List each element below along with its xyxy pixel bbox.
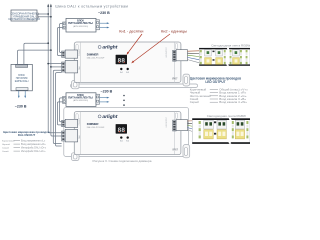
svg-text:arlight: arlight [102, 114, 117, 120]
wire busPSU mains N [24, 91, 26, 96]
terminal PSU1 right [96, 20, 100, 30]
arrow Кн1 to display [127, 34, 143, 55]
wire PSU1 N mains [100, 27, 108, 29]
node L2 dimmer1 [50, 66, 52, 68]
svg-text:IP67: IP67 [173, 147, 179, 151]
wire panel to L1 [37, 13, 48, 15]
svg-text:Светодиодная лента RGBW: Светодиодная лента RGBW [211, 43, 250, 47]
dimmer2 strip connector body [176, 120, 187, 131]
wire L1 tap to dimmer1 DALI [48, 63, 61, 65]
svg-text:DALI-104-PX1-SUF: DALI-104-PX1-SUF [87, 57, 105, 60]
strip1 pads mid-right [230, 50, 232, 64]
svg-text:Черный: Черный [2, 143, 11, 146]
dimmer2 right ear [183, 145, 190, 158]
dimmer2 case U2 [74, 112, 181, 155]
wire PSU2 L mains [100, 97, 108, 99]
wire busPSU mains L [18, 91, 20, 96]
svg-text:LED OUTPUT: LED OUTPUT [205, 80, 225, 84]
strip2 LED unit 3 [235, 120, 244, 139]
dimmer1 case U1 [74, 42, 181, 82]
dimmer1 right ear [183, 74, 190, 86]
LED strip 1 [199, 48, 250, 66]
dimmer2 right flange line [174, 112, 176, 155]
node panel-L2 [50, 16, 52, 18]
arrow bus L2 up [50, 4, 52, 7]
strip1 LED unit 3 [233, 50, 240, 65]
dimmer2 flange slot left [76, 114, 78, 120]
node busPSU-L2 [50, 49, 52, 51]
wire PSU2 N mains [100, 101, 108, 103]
strip2 pads left [199, 121, 201, 138]
wire L2 tap to dimmer1 DALI [51, 66, 62, 68]
terminal PSU2 right [96, 94, 100, 104]
wire daisy DALI out A (dimmer1 to dimmer2) [53, 70, 61, 143]
dimmer2 logo arlight [98, 114, 118, 120]
wire PSU1 V+ to dimmer1 power [60, 24, 63, 53]
svg-text:ПИТАНИЯ ЛЕНТЫ: ПИТАНИЯ ЛЕНТЫ [68, 21, 93, 25]
wire PSU2 V+ to dimmer2 power [60, 98, 63, 122]
wire busPSU to L2 [18, 50, 51, 64]
strip PSU 2 box: Блок питания ленты [66, 93, 96, 107]
ellipsis more devices [123, 95, 125, 106]
arrow bus L1 up [47, 4, 49, 7]
svg-text:LED OUTPUT: LED OUTPUT [166, 47, 168, 57]
strip1 pads mid-left [224, 50, 226, 64]
svg-text:Вход канала 4 «W»: Вход канала 4 «W» [219, 100, 247, 104]
svg-text:(ARV-SN24100): (ARV-SN24100) [73, 25, 88, 28]
arrow PSU2 L [107, 97, 110, 99]
strip2 pads mid-right [232, 121, 234, 138]
dimmer2 button Кн1 [120, 136, 122, 138]
dimmer1 display [116, 55, 127, 65]
svg-text:LED OUTPUT: LED OUTPUT [166, 117, 168, 127]
dimmer2 left ear [71, 153, 79, 161]
svg-text:DALI: DALI [78, 66, 81, 70]
svg-text:~230 В: ~230 В [98, 11, 110, 15]
wire PSU1 L mains [100, 22, 108, 24]
arrow PSU1 N [107, 27, 110, 29]
arrow busPSU mains L [18, 96, 20, 99]
wire DALI bus L2 [51, 6, 62, 136]
strip1 cut gap [226, 48, 230, 66]
wire PSU2 V- to dimmer2 power [57, 102, 62, 125]
legend LED OUTPUT (right) [190, 77, 248, 105]
arrow PSU2 N [107, 101, 110, 103]
strip1 LED unit 2 [216, 50, 223, 65]
terminal dimmer1 POWER [62, 50, 78, 58]
wires dimmer1 to strip1 (5 pcs) [188, 51, 200, 63]
strip2 LED unit 1 [204, 120, 213, 139]
svg-text:ПИТАНИЯ ЛЕНТЫ: ПИТАНИЯ ЛЕНТЫ [68, 96, 93, 100]
svg-text:POWER: POWER [79, 118, 81, 125]
dimmer2 left flange line [79, 112, 81, 155]
strip1 resistors 1 [213, 51, 215, 61]
svg-text:Серый: Серый [2, 147, 10, 150]
strip PSU 1 box: Блок питания ленты [66, 18, 96, 32]
terminal dimmer1 DALI [62, 60, 78, 73]
svg-text:Кн2: Кн2 [126, 72, 129, 74]
dimmer1 strip connector body [176, 50, 187, 61]
strip1 pads right end [240, 50, 248, 64]
dimmer1 cable pins [173, 50, 177, 61]
dimmer2 button Кн2 [127, 136, 129, 138]
terminal dimmer2 DALI [62, 129, 78, 142]
svg-text:СИСТЕМОЙ ОСВЕЩЕНИЯ: СИСТЕМОЙ ОСВЕЩЕНИЯ [8, 18, 40, 21]
terminal dimmer2 POWER [62, 119, 78, 127]
svg-text:Интерфейс DALI «D-»: Интерфейс DALI «D-» [21, 150, 46, 153]
svg-text:~230 В: ~230 В [101, 90, 113, 94]
svg-text:(ARV-SN24100): (ARV-SN24100) [73, 99, 88, 102]
svg-text:Коричневый: Коричневый [2, 140, 15, 143]
dimmer1 flange slot right [175, 44, 177, 49]
dimmer1 button Кн2 [127, 68, 129, 70]
strip2 LED unit 2 [217, 120, 226, 139]
arrow PSU1 L [107, 22, 110, 24]
terminal PSU1 left [63, 22, 66, 29]
svg-text:DALI IN/OUT: DALI IN/OUT [18, 133, 36, 137]
node L1 dimmer1 [47, 63, 49, 65]
wire busPSU to L1 [24, 43, 48, 64]
wires dimmer2 to strip2 (5 pcs) [188, 121, 199, 134]
arrow busPSU mains N [24, 96, 26, 99]
node panel-L1 [47, 13, 49, 15]
svg-text:ШИНЫ DALI: ШИНЫ DALI [15, 80, 29, 83]
wire DALI bus L1 [48, 6, 61, 133]
svg-text:DALI-104-PX1-SUF: DALI-104-PX1-SUF [87, 126, 105, 129]
dimmer1 mounting rail [71, 84, 198, 87]
terminal PSU2 left [63, 96, 66, 103]
arrow Кн2 to button [131, 34, 170, 63]
svg-text:~230 В: ~230 В [15, 104, 27, 108]
svg-text:Шина DALI к остальным устройст: Шина DALI к остальным устройствам [55, 4, 128, 8]
svg-text:Рисунок 3. Схема подключения д: Рисунок 3. Схема подключения диммера [93, 159, 152, 163]
strip1 LED unit 1 [205, 50, 212, 65]
dimmer1 logo arlight [98, 45, 118, 51]
svg-text:88: 88 [117, 58, 125, 65]
node busPSU-L1 [47, 42, 49, 44]
strip1 pads left [200, 50, 202, 64]
svg-text:Кн1: Кн1 [120, 72, 123, 74]
bus PSU box: блок питания шины DALI [11, 64, 32, 90]
svg-text:88: 88 [117, 127, 125, 134]
wire daisy DALI out B (dimmer1 to dimmer2) [56, 73, 62, 146]
legend DALI wires (left) [2, 130, 50, 153]
touch control panel box [8, 10, 40, 21]
svg-text:Кн1: Кн1 [120, 141, 123, 143]
dimmer1 right flange line [174, 42, 176, 82]
wire PSU1 V- to dimmer1 power [57, 28, 62, 56]
svg-text:Синий: Синий [2, 150, 9, 153]
dimmer2 display [116, 124, 127, 134]
svg-text:IP67: IP67 [172, 76, 178, 80]
strip2 resistors [214, 121, 216, 134]
dimmer2 cable pins [173, 120, 177, 131]
svg-text:DALI: DALI [78, 135, 81, 139]
svg-text:Кн1 - десятки: Кн1 - десятки [119, 28, 143, 33]
dimmer2 backplate [64, 107, 189, 156]
svg-text:Светодиодная лента RGBW: Светодиодная лента RGBW [207, 114, 246, 118]
svg-text:Кн2 - единицы: Кн2 - единицы [161, 28, 187, 33]
svg-text:Серый: Серый [190, 100, 199, 104]
strip2 pads right end [246, 121, 248, 138]
strip2 cut gap [228, 118, 232, 144]
dimmer1 button Кн1 [120, 68, 122, 70]
dimmer1 flange slot left [76, 44, 78, 50]
LED strip 2 [192, 118, 250, 143]
wire panel to L2 [37, 16, 51, 18]
svg-text:DIMMER: DIMMER [87, 122, 100, 126]
dimmer2 flange slot right [175, 113, 177, 118]
svg-text:arlight: arlight [102, 45, 117, 51]
svg-text:Кн2: Кн2 [126, 141, 129, 143]
dimmer1 left ear [71, 81, 79, 89]
svg-text:DIMMER: DIMMER [87, 53, 100, 57]
dimmer1 left flange line [79, 42, 81, 82]
svg-text:POWER: POWER [79, 49, 81, 56]
terminal panel pins [37, 13, 39, 18]
